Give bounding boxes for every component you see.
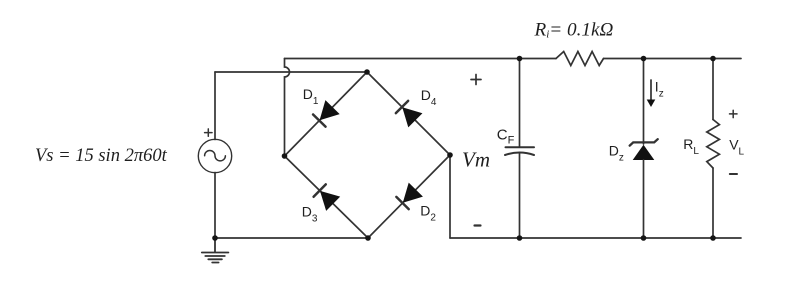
wire bridge edge top-right bbox=[367, 72, 450, 155]
junction node bridge left bbox=[282, 153, 288, 159]
wire ground rail bbox=[215, 237, 368, 239]
ground bbox=[202, 238, 229, 263]
wire output bottom rail bbox=[450, 237, 741, 239]
wire source bottom vertical bbox=[214, 173, 216, 239]
svg-text:Ri= 0.1kΩ: Ri= 0.1kΩ bbox=[534, 20, 614, 41]
zener Dz bottom lead bbox=[643, 160, 645, 238]
wire bridge edge bottom-left bbox=[285, 156, 369, 238]
voltage source Vs bbox=[198, 139, 231, 172]
diode D2 bbox=[395, 183, 423, 211]
svg-text:D4: D4 bbox=[421, 87, 437, 108]
wire source top vertical bbox=[214, 72, 216, 140]
zener diode Dz bbox=[630, 139, 658, 160]
minus sign at VL bbox=[730, 173, 737, 175]
junction node at source bottom bbox=[212, 235, 218, 241]
minus sign above bottom rail bbox=[475, 224, 481, 226]
wire bridge edge bottom-right bbox=[368, 155, 450, 238]
capacitor CF bbox=[505, 147, 534, 155]
svg-text:VL: VL bbox=[729, 137, 744, 158]
svg-text:D1: D1 bbox=[303, 86, 319, 107]
resistor RL bottom lead bbox=[712, 168, 714, 238]
svg-text:CF: CF bbox=[497, 126, 515, 146]
diode D3 bbox=[313, 183, 340, 211]
wire top rail left segment bbox=[285, 58, 557, 60]
wire bridge right corner down bbox=[449, 155, 451, 238]
svg-text:D3: D3 bbox=[302, 204, 318, 225]
plus sign at source bbox=[205, 129, 212, 136]
junction node zener top bbox=[641, 56, 647, 62]
wire top rail right segment bbox=[604, 58, 742, 60]
svg-text:Vs = 15 sin 2π60t: Vs = 15 sin 2π60t bbox=[35, 146, 168, 166]
capacitor CF top lead bbox=[519, 59, 521, 147]
svg-text:RL: RL bbox=[683, 136, 699, 157]
svg-text:Vm: Vm bbox=[462, 148, 490, 172]
current arrow Iz bbox=[647, 80, 656, 107]
svg-text:Iz: Iz bbox=[655, 79, 664, 100]
junction node RL bottom bbox=[710, 235, 716, 241]
resistor Ri bbox=[556, 52, 604, 66]
resistor RL bbox=[707, 120, 720, 169]
junction node RL top bbox=[710, 56, 716, 62]
plus sign at VL bbox=[730, 110, 738, 117]
junction node bridge right bbox=[447, 152, 453, 158]
diode D4 bbox=[395, 100, 423, 128]
svg-text:Dz: Dz bbox=[609, 143, 624, 164]
diode D1 bbox=[312, 100, 340, 127]
wire source to bridge top bbox=[215, 71, 367, 73]
capacitor CF bottom lead bbox=[519, 153, 521, 238]
junction node bridge top bbox=[364, 69, 370, 75]
svg-text:D2: D2 bbox=[420, 203, 436, 224]
junction node cap bottom bbox=[517, 235, 523, 241]
junction node bridge bottom bbox=[365, 235, 371, 241]
plus sign at cap output bbox=[471, 75, 481, 85]
zener Dz top lead bbox=[643, 59, 645, 145]
junction node cap top bbox=[517, 56, 523, 62]
junction node zener bottom bbox=[641, 235, 647, 241]
resistor RL top lead bbox=[712, 59, 714, 120]
wire plus rail vertical with hop bbox=[285, 59, 290, 157]
wire bridge edge top-left bbox=[285, 72, 368, 156]
